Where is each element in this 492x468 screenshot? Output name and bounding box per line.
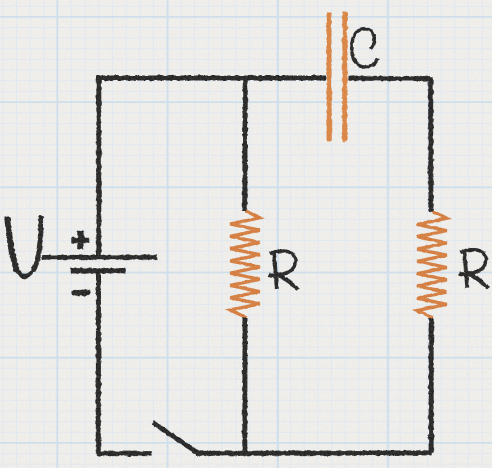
capacitor C: left plate [326, 13, 331, 142]
wire: left vertical, battery - plate down to bottom-left corner [96, 272, 101, 454]
battery V: short (-) plate [70, 268, 125, 273]
wire: right vertical, resistor R2 down to bottom-right corner [429, 318, 434, 453]
label C (capacitor) [352, 29, 378, 67]
wire: bottom rail, left corner to switch [96, 451, 152, 456]
wire: top rail, battery to capacitor left plate [96, 76, 326, 81]
battery V: plus sign [72, 231, 90, 250]
battery V: long (+) plate [42, 255, 157, 260]
capacitor C: right plate [342, 12, 347, 142]
wire: top rail, capacitor right plate to top-right corner [348, 76, 431, 81]
resistor R1 (middle branch) [230, 211, 260, 318]
wire: middle vertical, resistor R1 down to bottom rail [242, 318, 247, 454]
wire: middle vertical, top rail down to resistor R1 [242, 78, 248, 212]
battery V: minus sign [74, 290, 87, 296]
label R (middle resistor) [269, 251, 298, 290]
wire: bottom rail, switch to bottom-right corner [197, 450, 432, 456]
wire: left vertical, top corner down to battery + plate [96, 76, 101, 255]
label V (source) [5, 216, 44, 277]
switch (open blade) [153, 422, 200, 454]
wire: right vertical, top-right corner down to resistor R2 [428, 77, 433, 212]
resistor R2 (right branch) [417, 212, 447, 319]
label R (right resistor) [459, 250, 488, 289]
